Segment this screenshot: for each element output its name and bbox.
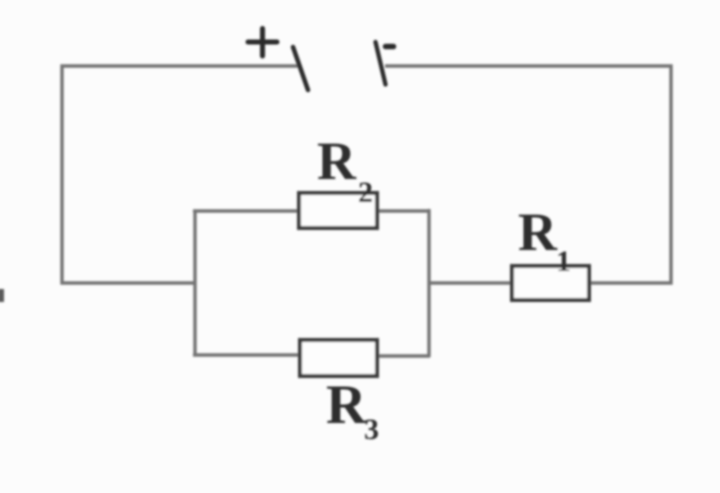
- wire middle right to R1: [429, 281, 513, 284]
- node: parallel block left junction: [193, 210, 196, 355]
- svg-text:R: R: [317, 131, 357, 191]
- plus polarity mark: [248, 29, 277, 57]
- switch left contact slash: [293, 47, 308, 90]
- svg-text:R: R: [518, 202, 558, 262]
- wire top-right segment: [385, 66, 671, 283]
- switch right contact slash: [376, 42, 386, 85]
- resistor R2: [299, 193, 377, 228]
- resistor R3: [300, 340, 377, 376]
- svg-text:R: R: [326, 374, 367, 436]
- edge artifact mark: [0, 289, 4, 302]
- svg-text:3: 3: [364, 413, 379, 446]
- svg-text:1: 1: [556, 245, 571, 278]
- wire inner top branch: [193, 209, 430, 212]
- resistor R1: [512, 266, 589, 300]
- wire top-left segment: [62, 66, 298, 283]
- minus polarity mark: [386, 44, 394, 50]
- node: parallel block right junction: [427, 209, 430, 357]
- svg-text:2: 2: [358, 176, 373, 209]
- wire inner bottom branch: [193, 355, 430, 356]
